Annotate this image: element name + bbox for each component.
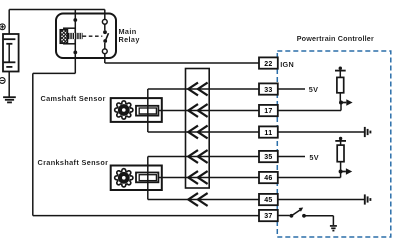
junction dot pin46 [339,170,343,174]
junction dot pin17 [339,101,343,105]
wire relay switch top [104,24,106,30]
relay coil ribbed solenoid [68,33,83,39]
pin 46 [259,172,278,183]
relay coil junction dot top [73,18,77,22]
svg-text:IGN: IGN [280,60,294,69]
wire relay coil vertical [74,10,76,74]
svg-text:Camshaft Sensor: Camshaft Sensor [41,94,106,103]
pin 33 [259,83,278,94]
pin 45 [259,194,278,205]
wire pin 45 to ground [278,199,364,201]
relay switch arm [105,33,108,41]
relay coil bracket [64,28,75,44]
wire relay switch to pin 22 [105,54,259,63]
ground battery [3,97,16,102]
pin 37 [259,210,278,221]
pin 17 [259,105,278,116]
wire crankshaft signal to pin 46 [158,177,259,179]
control switch contact right [302,214,306,218]
wire relay switch bottom [104,43,106,49]
camshaft sensor connector [136,106,158,116]
svg-text:35: 35 [264,154,272,161]
twist chevrons row pin 33 [188,83,207,96]
wire pin 17 to pullup junction [278,103,341,111]
wire pin 11 to ground [278,131,364,133]
wire camshaft signal+ to pin 33 [148,88,259,90]
svg-text:37: 37 [264,213,272,220]
chassis ground pin 45 [365,194,371,204]
signal arrow pin46 [341,171,346,173]
5V rail bar R2 [335,140,346,142]
wire rail drop to relay switch [104,10,106,20]
svg-text:5V: 5V [309,153,319,162]
relay switch terminal circle bottom [102,49,107,54]
relay switch terminal circle top [102,19,107,24]
relay switch contact dot bottom [103,39,107,43]
wire pin 46 to pullup junction [278,172,341,178]
relay box U1 [56,14,116,59]
5V rail bar R1 [335,70,346,72]
pullup resistor R1 [337,77,344,92]
wire top rail from battery to relay switch [9,9,105,11]
pin 35 [259,151,278,162]
wire pin 35 to 5V [278,156,305,158]
signal arrow pin17 [341,102,346,104]
wire battery negative lead [8,72,10,97]
twist chevrons row pin 11 [188,126,207,139]
twist chevrons row pin 17 [188,104,207,117]
crankshaft sensor gear [115,169,133,187]
battery plus terminal label [0,24,5,30]
pin 11 [259,126,278,137]
control switch contact left [290,214,294,218]
relay switch contact dot top [103,30,107,34]
svg-text:11: 11 [264,130,272,137]
relay coil junction dot bottom [73,51,77,55]
control switch arm [292,210,301,216]
svg-text:17: 17 [264,108,272,115]
camshaft sensor box [111,98,162,122]
wire crankshaft return to pin 45 [148,199,259,201]
wire battery positive lead [8,10,10,35]
twist chevrons row pin 35 [188,150,207,163]
powertrain controller dashed box [277,51,391,237]
svg-text:Crankshaft Sensor: Crankshaft Sensor [38,158,109,167]
wire switch to ground [304,216,333,225]
ground pin 37 [330,226,337,231]
svg-text:22: 22 [264,61,272,68]
chassis ground pin 11 [365,127,371,137]
wire crankshaft terminal vertical [147,157,149,200]
crankshaft sensor connector [136,173,158,183]
svg-text:46: 46 [264,175,272,182]
control switch arm arrowhead [299,208,304,212]
relay actuation dashed link [83,35,103,37]
battery B1 [3,34,19,72]
pullup resistor R2 [337,145,344,162]
wire relay coil to chassis feed [33,73,259,215]
twist chevrons row pin 45 [188,193,207,206]
svg-text:5V: 5V [309,85,319,94]
wire camshaft return to pin 11 [148,131,259,133]
wire crankshaft supply to pin 35 [148,156,259,158]
camshaft sensor gear [115,101,133,119]
twisted harness box [186,69,210,189]
battery minus terminal label [0,78,5,84]
svg-text:Relay: Relay [119,35,141,44]
svg-text:45: 45 [264,197,272,204]
svg-text:33: 33 [264,87,272,94]
pin 22 [259,57,278,68]
wire camshaft terminal vertical [147,89,149,132]
twist chevrons row pin 46 [188,171,207,184]
wire pin 37 to switch [278,215,290,217]
svg-text:Powertrain Controller: Powertrain Controller [297,34,374,43]
wire pin 33 to 5V [278,88,305,90]
crankshaft sensor box [111,166,162,191]
relay coil hatched box [60,30,67,44]
wire camshaft signal to pin 17 [158,110,259,112]
